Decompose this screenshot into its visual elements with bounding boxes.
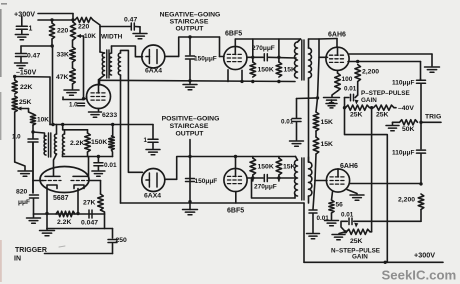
svg-text:POSITIVE–GOING: POSITIVE–GOING <box>162 116 220 123</box>
svg-text:OUTPUT: OUTPUT <box>176 131 205 138</box>
svg-text:220: 220 <box>57 28 69 35</box>
svg-text:110μμF: 110μμF <box>392 150 414 157</box>
svg-text:0.01: 0.01 <box>341 211 354 218</box>
svg-text:150μμF: 150μμF <box>195 178 218 185</box>
svg-text:2.2K: 2.2K <box>57 219 71 226</box>
svg-text:GAIN: GAIN <box>352 254 368 261</box>
svg-text:SeekIC.com: SeekIC.com <box>382 268 457 283</box>
svg-text:110μμF: 110μμF <box>392 80 414 87</box>
svg-text:2,200: 2,200 <box>362 69 379 76</box>
svg-text:0.047: 0.047 <box>81 220 98 227</box>
svg-text:+300V: +300V <box>414 251 435 260</box>
svg-text:150K: 150K <box>258 67 274 74</box>
svg-text:6AH6: 6AH6 <box>340 163 358 170</box>
svg-text:1.0: 1.0 <box>12 134 21 141</box>
svg-text:OUTPUT: OUTPUT <box>176 26 205 33</box>
svg-text:15K: 15K <box>321 141 334 148</box>
svg-text:100: 100 <box>342 76 353 83</box>
svg-text:56: 56 <box>336 202 344 209</box>
svg-text:6AH6: 6AH6 <box>328 32 346 39</box>
svg-text:270μμF: 270μμF <box>252 45 275 52</box>
svg-text:1: 1 <box>29 26 33 33</box>
svg-text:6BF5: 6BF5 <box>225 31 242 38</box>
svg-text:P–STEP–PULSE: P–STEP–PULSE <box>361 90 410 97</box>
svg-text:STAIRCASE: STAIRCASE <box>170 123 209 130</box>
svg-text:2,200: 2,200 <box>398 197 415 204</box>
svg-text:47K: 47K <box>56 74 69 81</box>
svg-text:820: 820 <box>16 189 28 196</box>
svg-text:0.01: 0.01 <box>344 86 357 93</box>
svg-text:150K: 150K <box>91 139 107 146</box>
svg-text:5687: 5687 <box>53 195 69 202</box>
svg-text:270μμF: 270μμF <box>254 184 277 191</box>
svg-text:+300V: +300V <box>14 10 35 19</box>
svg-text:25K: 25K <box>350 238 363 245</box>
svg-text:27K: 27K <box>83 200 96 207</box>
svg-text:150μμF: 150μμF <box>194 56 217 63</box>
svg-text:1: 1 <box>144 137 148 144</box>
svg-text:6BF5: 6BF5 <box>227 208 244 215</box>
svg-text:WIDTH: WIDTH <box>101 34 123 41</box>
svg-text:6AX4: 6AX4 <box>145 68 162 75</box>
svg-text:25K: 25K <box>350 112 363 119</box>
svg-text:15K: 15K <box>283 164 296 171</box>
svg-text:33K: 33K <box>57 52 70 59</box>
svg-text:220: 220 <box>78 24 90 31</box>
svg-text:IN: IN <box>14 256 21 263</box>
svg-text:50K: 50K <box>402 126 415 133</box>
svg-text:1.0: 1.0 <box>69 102 78 109</box>
svg-text:TRIG: TRIG <box>425 114 441 121</box>
svg-text:10K: 10K <box>37 117 49 124</box>
svg-text:–40V: –40V <box>398 105 414 112</box>
svg-text:NEGATIVE–GOING: NEGATIVE–GOING <box>160 12 221 19</box>
svg-text:22K: 22K <box>20 84 33 91</box>
svg-text:0.01: 0.01 <box>281 119 294 126</box>
svg-text:6AX4: 6AX4 <box>144 193 161 200</box>
svg-text:0.01: 0.01 <box>104 162 117 169</box>
svg-text:–150V: –150V <box>16 70 37 77</box>
svg-text:150K: 150K <box>258 164 274 171</box>
svg-text:STAIRCASE: STAIRCASE <box>170 19 209 26</box>
svg-text:0.47: 0.47 <box>124 17 137 24</box>
svg-text:15K: 15K <box>321 119 334 126</box>
svg-text:25K: 25K <box>19 99 32 106</box>
svg-text:GAIN: GAIN <box>361 97 377 104</box>
svg-text:250: 250 <box>116 237 128 244</box>
svg-text:TRIGGER: TRIGGER <box>15 247 47 254</box>
svg-text:μμF: μμF <box>18 199 30 206</box>
svg-text:2.2K: 2.2K <box>70 140 84 147</box>
svg-text:25K: 25K <box>376 112 389 119</box>
svg-text:0.47: 0.47 <box>27 53 40 60</box>
svg-text:10K: 10K <box>84 33 96 40</box>
svg-text:6233: 6233 <box>102 112 117 119</box>
